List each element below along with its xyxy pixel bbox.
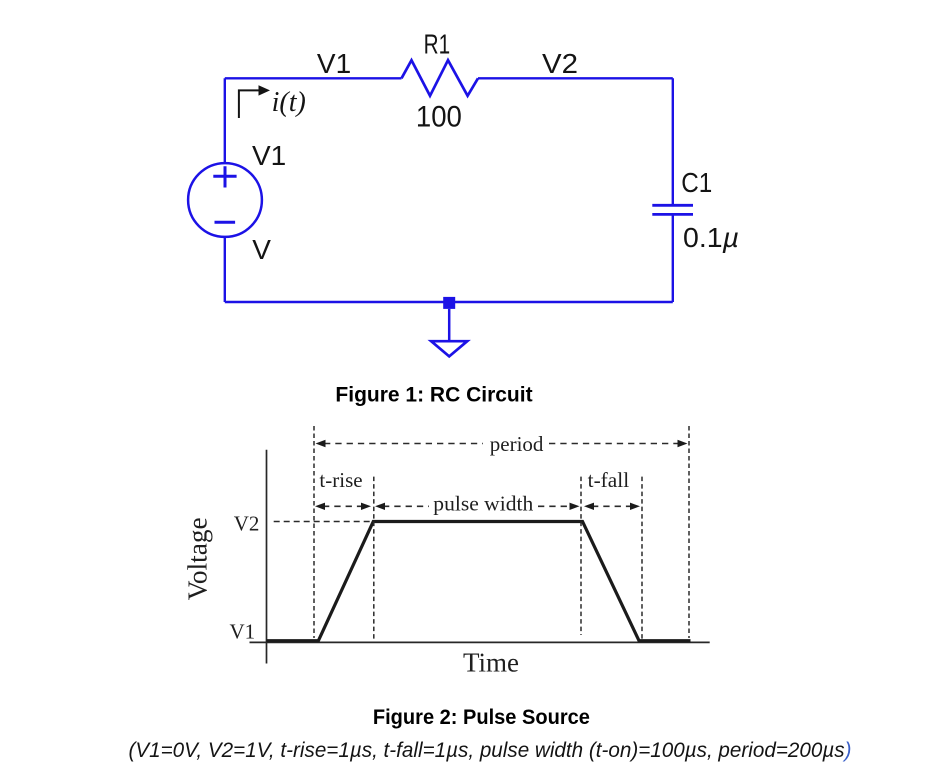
node V1 label	[317, 48, 351, 79]
svg-text:V2: V2	[234, 511, 260, 535]
label t-rise	[319, 468, 362, 492]
voltage source V1	[188, 163, 262, 237]
resistor R1	[402, 60, 479, 96]
tick label V2	[234, 511, 260, 535]
parameters line	[128, 739, 851, 762]
caption Figure 1	[335, 384, 532, 407]
pulse waveform	[267, 522, 691, 641]
svg-text:t-rise: t-rise	[319, 468, 362, 492]
wire top-left to resistor	[225, 77, 402, 79]
capacitor C1	[652, 205, 693, 214]
wire right side lower	[672, 214, 674, 302]
tick label V1	[230, 620, 256, 644]
svg-text:V1: V1	[317, 48, 351, 79]
wire left side lower	[224, 236, 226, 302]
svg-text:Figure 1: RC Circuit: Figure 1: RC Circuit	[335, 384, 532, 407]
svg-text:V2: V2	[542, 48, 578, 79]
axis label Voltage	[183, 517, 213, 600]
x axis Time	[250, 641, 710, 643]
svg-text:C1: C1	[681, 167, 712, 198]
caption Figure 2	[373, 706, 590, 729]
svg-text:Time: Time	[463, 648, 519, 678]
dashed vertical fall-start	[580, 477, 582, 635]
axis label Time	[463, 648, 519, 678]
svg-text:V: V	[252, 234, 271, 265]
svg-text:0.1µ: 0.1µ	[683, 222, 739, 253]
node V2 label	[542, 48, 578, 79]
wire left side upper	[224, 78, 226, 164]
dashed vertical period-end	[688, 426, 690, 638]
y axis Voltage	[266, 450, 268, 664]
label i(t)	[272, 87, 306, 118]
label period	[490, 432, 544, 456]
ground node junction	[443, 297, 455, 309]
svg-text:(V1=0V, V2=1V, t-rise=1µs, t-f: (V1=0V, V2=1V, t-rise=1µs, t-fall=1µs, p…	[128, 739, 851, 762]
pulse width arrow	[375, 503, 580, 510]
svg-text:100: 100	[416, 100, 462, 133]
svg-text:period: period	[490, 432, 544, 456]
t-rise arrow	[315, 503, 371, 510]
period arrow	[316, 440, 688, 447]
dashed vertical fall-end	[641, 477, 643, 640]
t-fall arrow	[584, 503, 640, 510]
label V unit	[252, 234, 271, 265]
label 0.1u value	[683, 222, 739, 253]
current arrow i(t)	[239, 85, 270, 118]
svg-text:i(t): i(t)	[272, 87, 306, 118]
ground symbol	[431, 341, 467, 356]
wire resistor to top-right corner	[478, 77, 673, 79]
label R1	[424, 29, 451, 60]
label t-fall	[588, 468, 630, 492]
dashed vertical rise-start	[313, 426, 315, 638]
svg-text:t-fall: t-fall	[588, 468, 630, 492]
label 100	[416, 100, 462, 133]
svg-text:R1: R1	[424, 29, 451, 60]
svg-text:V1: V1	[230, 620, 256, 644]
label C1	[681, 167, 712, 198]
wire bottom	[225, 301, 673, 303]
svg-text:Voltage: Voltage	[183, 517, 213, 600]
label V1 source	[252, 140, 286, 171]
label pulse width	[433, 491, 534, 515]
svg-text:pulse width: pulse width	[433, 491, 534, 515]
ground stem wire	[448, 309, 451, 340]
dashed level line V2	[274, 521, 373, 523]
svg-text:V1: V1	[252, 140, 286, 171]
dashed vertical rise-end	[373, 477, 375, 640]
wire right side upper	[672, 78, 674, 205]
svg-text:Figure 2: Pulse Source: Figure 2: Pulse Source	[373, 706, 590, 729]
